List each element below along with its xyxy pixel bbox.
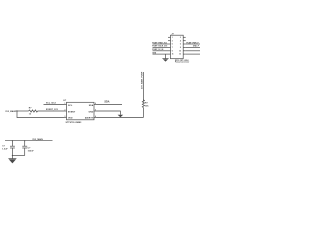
wire SDA right <box>97 104 123 106</box>
svg-text:ADDR/TH: ADDR/TH <box>85 117 94 120</box>
svg-text:SDA: SDA <box>89 104 94 107</box>
svg-text:SCL: SCL <box>68 105 73 107</box>
svg-text:GND_P: GND_P <box>193 46 200 48</box>
capacitor C? 100nF <box>24 141 26 147</box>
resistor R? 10k pull-up (right) <box>142 100 144 108</box>
svg-text:7: 7 <box>172 47 173 49</box>
connector J? 12-pin <box>171 35 184 59</box>
svg-text:Pump Connector: Pump Connector <box>175 61 190 64</box>
J1 pin stub right 6 <box>183 53 186 55</box>
ground arrow GND pin <box>118 115 124 118</box>
U1 pin stub left 3 <box>64 117 67 119</box>
J1 pin stub left 5 <box>168 50 171 52</box>
J1 pin numbers left column <box>172 37 174 56</box>
J1 pin stub left 2 <box>168 40 171 42</box>
svg-text:3V3_MAIN_PUMP: 3V3_MAIN_PUMP <box>141 71 144 89</box>
svg-text:11: 11 <box>172 54 174 56</box>
svg-text:1.0uF: 1.0uF <box>2 149 8 151</box>
wire SCL left <box>44 104 65 106</box>
junction node C2 top <box>24 140 25 141</box>
wire cap bottoms <box>12 155 24 157</box>
svg-text:GND: GND <box>89 111 94 113</box>
svg-text:5: 5 <box>172 44 173 46</box>
J1 pin stub right 4 <box>183 46 186 48</box>
wire ADDR/THERM right <box>97 117 144 119</box>
svg-text:100nF: 100nF <box>28 150 35 152</box>
wire J1 right pin3 <box>186 43 200 45</box>
wire GND right <box>97 111 121 115</box>
svg-text:PUMP_TACH_3V3: PUMP_TACH_3V3 <box>152 45 167 48</box>
svg-text:3V3_MAIN: 3V3_MAIN <box>32 138 43 141</box>
svg-text:8: 8 <box>180 47 181 49</box>
J1 pin numbers right column <box>179 37 181 56</box>
svg-text:6: 6 <box>95 103 96 105</box>
wire pullup vertical upper <box>142 72 144 101</box>
resistor R? 1k (series, left) <box>29 110 38 112</box>
J1 pin stub left 4 <box>168 46 171 48</box>
J1 pin stub left 3 <box>168 43 171 45</box>
svg-text:6: 6 <box>180 44 181 46</box>
junction node VDD tap <box>16 110 17 111</box>
wire pullup vertical lower <box>142 108 144 118</box>
svg-text:5: 5 <box>95 110 96 112</box>
svg-text:PUMP_PWM_3V3: PUMP_PWM_3V3 <box>152 42 166 44</box>
J1 pin stub right 5 <box>183 50 186 52</box>
capacitor C? 1.0uF <box>11 141 13 147</box>
U1 pin stub left 1 <box>64 104 67 106</box>
junction node gnd <box>12 155 13 156</box>
svg-text:PUMP_5V_IN: PUMP_5V_IN <box>152 49 164 51</box>
U1 pin stub right 2 <box>94 110 97 112</box>
svg-text:2: 2 <box>65 110 66 112</box>
J1 pin stub right 3 <box>183 43 186 45</box>
svg-text:STTS751-0WB3: STTS751-0WB3 <box>66 122 83 124</box>
svg-text:PUMP_PWR_P: PUMP_PWR_P <box>186 42 199 44</box>
wire 3V3 rail bottom left <box>5 140 53 142</box>
wire J1 right pin6 <box>186 53 200 55</box>
svg-text:3: 3 <box>172 40 173 42</box>
wire J1 right pin5 <box>186 50 200 52</box>
wire J1 right pin4 <box>186 46 200 48</box>
U1 pin stub left 2 <box>64 110 67 112</box>
svg-text:EVENT_3V3: EVENT_3V3 <box>46 109 59 111</box>
wire J1 left pin4 <box>153 46 169 48</box>
svg-text:1: 1 <box>172 37 173 39</box>
svg-text:SDA: SDA <box>104 101 109 104</box>
svg-text:12: 12 <box>179 54 181 56</box>
svg-text:SCL_I2C2: SCL_I2C2 <box>46 103 57 105</box>
J1 pin stub left 1 <box>168 36 171 38</box>
svg-text:1: 1 <box>65 103 66 105</box>
junction node C1 top <box>12 140 13 141</box>
svg-text:2: 2 <box>180 37 181 39</box>
ground J1 <box>162 58 168 60</box>
svg-text:3V3_MAIN: 3V3_MAIN <box>5 110 16 113</box>
wire J1 left pin5 <box>153 50 169 52</box>
svg-text:3: 3 <box>65 116 66 118</box>
U1 pin stub right 3 <box>94 117 97 119</box>
wire gnd tap <box>165 54 167 59</box>
IC U? temperature sensor STTS751 <box>67 102 95 120</box>
svg-text:EVENT: EVENT <box>68 111 76 113</box>
svg-text:VDD: VDD <box>68 118 73 120</box>
wire J1 left pin3 <box>153 43 169 45</box>
J1 pin stub left 6 <box>168 53 171 55</box>
ground decoupling <box>11 156 13 159</box>
J1 pin stub right 1 <box>183 36 186 38</box>
U1 pin stub right 1 <box>94 104 97 106</box>
wire EVENT left segment A <box>16 110 29 112</box>
J1 pin stub right 2 <box>183 40 186 42</box>
svg-text:9: 9 <box>172 50 173 52</box>
wire EVENT left segment B <box>38 110 64 112</box>
wire J1 left pin6 <box>153 53 169 55</box>
svg-text:10: 10 <box>179 50 181 52</box>
wire VDD branch <box>17 111 64 118</box>
